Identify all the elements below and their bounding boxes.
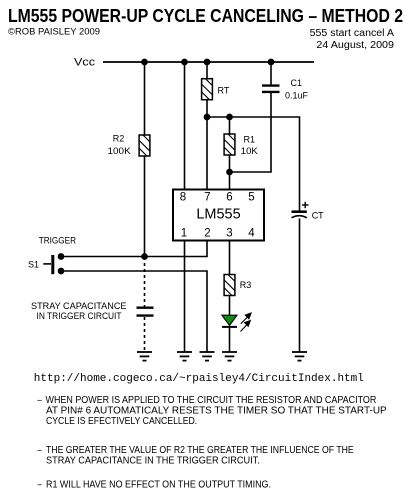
svg-text:555 start cancel A: 555 start cancel A [310, 28, 395, 39]
svg-text:–: – [38, 395, 43, 406]
svg-text:CT: CT [312, 211, 324, 221]
svg-text:STRAY CAPACITANCE: STRAY CAPACITANCE [31, 301, 127, 311]
svg-text:3: 3 [226, 228, 232, 240]
svg-text:©ROB PAISLEY 2009: ©ROB PAISLEY 2009 [8, 26, 100, 37]
svg-text:CYCLE IS EFECTIVELY CANCELLED.: CYCLE IS EFECTIVELY CANCELLED. [46, 416, 197, 427]
svg-text:1: 1 [181, 228, 187, 240]
svg-text:100K: 100K [108, 146, 131, 156]
svg-text:8: 8 [180, 192, 186, 204]
svg-text:WHEN POWER IS APPLIED TO THE C: WHEN POWER IS APPLIED TO THE CIRCUIT THE… [46, 395, 377, 406]
svg-text:0.1uF: 0.1uF [285, 91, 309, 101]
svg-text:TRIGGER: TRIGGER [39, 236, 77, 246]
svg-text:–: – [38, 445, 43, 456]
svg-text:2: 2 [204, 228, 210, 240]
svg-text:24 August, 2009: 24 August, 2009 [316, 40, 394, 51]
svg-text:R3: R3 [240, 280, 252, 290]
svg-text:R2: R2 [113, 134, 125, 144]
svg-text:5: 5 [248, 192, 254, 204]
svg-text:http://home.cogeco.ca/~rpaisle: http://home.cogeco.ca/~rpaisley4/Circuit… [34, 373, 364, 385]
svg-text:R1: R1 [244, 135, 256, 145]
svg-text:S1: S1 [28, 260, 39, 270]
svg-text:IN TRIGGER CIRCUIT: IN TRIGGER CIRCUIT [37, 311, 122, 321]
svg-text:4: 4 [248, 228, 255, 240]
svg-text:RT: RT [218, 86, 230, 96]
svg-text:C1: C1 [291, 78, 303, 88]
svg-text:R1 WILL HAVE NO EFFECT ON THE: R1 WILL HAVE NO EFFECT ON THE OUTPUT TIM… [46, 480, 271, 491]
svg-text:6: 6 [226, 192, 232, 204]
svg-text:10K: 10K [241, 146, 258, 156]
svg-text:Vcc: Vcc [74, 56, 96, 68]
svg-text:–: – [38, 480, 43, 491]
svg-text:LM555: LM555 [196, 207, 240, 223]
svg-text:STRAY CAPACITANCE IN THE TRIGG: STRAY CAPACITANCE IN THE TRIGGER CIRCUIT… [46, 455, 260, 466]
svg-text:AT PIN# 6 AUTOMATICALY RESETS: AT PIN# 6 AUTOMATICALY RESETS THE TIMER … [46, 405, 387, 416]
svg-text:7: 7 [204, 192, 210, 204]
svg-text:LM555 POWER-UP CYCLE CANCELING: LM555 POWER-UP CYCLE CANCELING – METHOD … [8, 6, 403, 26]
